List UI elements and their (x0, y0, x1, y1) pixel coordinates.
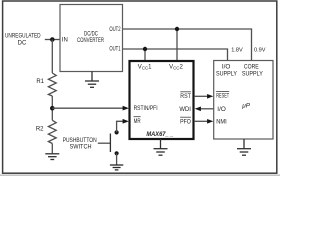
svg-text:R2: R2 (36, 126, 44, 132)
svg-text:SUPPLY: SUPPLY (216, 72, 237, 78)
pin RST label with overline (180, 92, 191, 100)
svg-text:PUSHBUTTON: PUSHBUTTON (63, 138, 97, 144)
resistor R1 (48, 73, 56, 96)
ground below switch (110, 165, 123, 170)
svg-text:VCC1: VCC1 (138, 65, 152, 71)
svg-text:CONVERTER: CONVERTER (77, 38, 104, 44)
svg-text:RSTIN/PFI: RSTIN/PFI (134, 106, 158, 112)
pin MR label with overline (134, 117, 142, 125)
wire input node down to R1 (51, 40, 53, 74)
wire input to IN pin (45, 39, 60, 41)
junction dot node 2 (50, 106, 55, 111)
wire switch to ground (116, 153, 118, 164)
svg-text:VCC2: VCC2 (169, 65, 183, 71)
wire R2 to ground (51, 144, 53, 154)
bottom edge shade (0, 174, 280, 176)
supervisor U2 MAX67__ box (130, 61, 194, 139)
svg-text:NMI: NMI (216, 120, 227, 126)
svg-text:1.8V: 1.8V (231, 47, 243, 53)
svg-text:PFO: PFO (180, 119, 191, 125)
ground below R2 (45, 154, 59, 160)
wire node 2 to RSTIN/PFI with arrow (52, 106, 129, 111)
dc-dc converter U1 box (60, 5, 123, 72)
ground below U3 (237, 139, 251, 155)
svg-text:DC: DC (18, 40, 27, 46)
pin CORE SUPPLY label (242, 64, 263, 77)
wire VCC2 pin wire (176, 29, 178, 60)
svg-text:RST: RST (180, 94, 191, 100)
junction dot at VCC1/OUT1 (143, 47, 147, 51)
pushbutton switch S1 (98, 130, 119, 155)
svg-text:μP: μP (241, 103, 251, 110)
svg-text:R1: R1 (36, 79, 44, 85)
wire VCC1 pin wire (144, 49, 146, 60)
svg-text:WDI: WDI (179, 107, 191, 113)
svg-text:IN: IN (62, 38, 68, 44)
wire R1 to node 2 to R2 (51, 96, 53, 120)
svg-text:DC/DC: DC/DC (84, 31, 98, 37)
wire switch to MR with arrow (117, 119, 129, 132)
svg-text:I/O: I/O (222, 64, 231, 70)
wire PFO to NMI with arrow (194, 119, 213, 124)
wire OUT2 net (0.9V rail) (123, 29, 252, 61)
microprocessor U3 box (214, 61, 273, 140)
svg-text:CORE: CORE (244, 64, 259, 70)
svg-text:SWITCH: SWITCH (70, 145, 92, 151)
svg-text:UNREGULATED: UNREGULATED (5, 34, 41, 40)
svg-text:RESET: RESET (216, 94, 229, 100)
junction dot input node (50, 37, 55, 42)
wire OUT1 net (1.8V rail) (123, 49, 228, 61)
pin I/O SUPPLY label (216, 64, 237, 77)
border frame (3, 1, 277, 173)
pin PFO label with overline (180, 117, 191, 125)
ground below U1 (85, 72, 99, 88)
svg-text:OUT2: OUT2 (109, 27, 121, 33)
node UNREGULATED DC input label (5, 34, 41, 47)
wire I/O to WDI with arrow (195, 107, 214, 112)
pin RESET label with overline (216, 91, 229, 99)
svg-text:MAX67_ _: MAX67_ _ (146, 131, 173, 138)
junction dot at VCC2/OUT2 (175, 27, 179, 31)
ground below U2 (154, 139, 168, 155)
svg-text:0.9V: 0.9V (254, 47, 266, 53)
resistor R2 (48, 120, 56, 143)
svg-text:SUPPLY: SUPPLY (242, 72, 263, 78)
svg-text:MR: MR (134, 119, 141, 125)
svg-text:I/O: I/O (217, 107, 226, 113)
pushbutton switch label (63, 138, 97, 151)
svg-text:OUT1: OUT1 (109, 47, 121, 53)
wire RST to RESET with arrow (194, 94, 213, 99)
